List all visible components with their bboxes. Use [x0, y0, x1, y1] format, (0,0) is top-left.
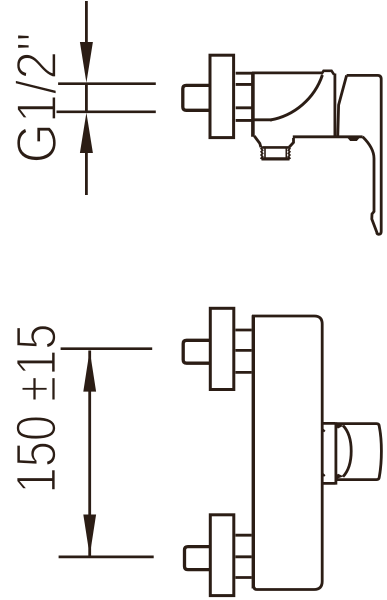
front view: lower inlet pipe stub	[185, 547, 210, 570]
front view: handle corner shade bottom	[337, 474, 344, 479]
front view: handle corner shade top	[337, 423, 344, 428]
front view: extension line lower	[59, 556, 154, 559]
side view: cartridge cap bump	[321, 71, 334, 75]
extension line lower G1/2	[57, 110, 156, 113]
side view: bottom shoulder line to handle	[293, 135, 363, 138]
side view: outlet nipple	[262, 146, 289, 149]
side view: outlet left chamfer	[254, 136, 261, 147]
side view: outlet right chamfer	[289, 138, 293, 147]
extension line upper G1/2	[58, 82, 156, 85]
front view: arrowhead up 150	[83, 350, 96, 391]
front view: upper wall escutcheon	[210, 308, 234, 389]
side view: connection nut rungs	[236, 73, 252, 120]
front view: handle base escutcheon	[323, 422, 336, 484]
front view: arrowhead down 150	[83, 515, 96, 556]
front view: lever handle top/outline	[336, 424, 382, 480]
side view: inlet pipe stub	[183, 85, 210, 110]
svg-text:G1/2": G1/2"	[5, 33, 69, 164]
side view: body top edge	[252, 72, 322, 75]
front view: dimension line 150	[88, 351, 91, 557]
front view: lower wall escutcheon	[210, 515, 234, 596]
front view: handle face arc	[343, 426, 351, 477]
side view: handle skirt front edge	[338, 75, 347, 135]
side view: handle gap shadow	[348, 137, 360, 141]
arrowhead down G1/2	[80, 42, 93, 83]
svg-text:150 ±15: 150 ±15	[5, 324, 69, 494]
arrowhead up G1/2	[80, 113, 93, 153]
front view: extension line upper	[61, 347, 153, 350]
side view: body internal line	[253, 118, 272, 121]
front view: upper inlet pipe stub	[183, 340, 209, 363]
front view: lower nut rungs	[236, 535, 252, 577]
side view: body right edge	[333, 74, 336, 136]
side view: nut right edge / body left edge	[251, 72, 255, 137]
side view: wall escutcheon	[210, 55, 234, 137]
dimension line G1/2 vertical	[85, 1, 88, 42]
front view: body outline	[252, 316, 322, 590]
front view: wall plate tick marks	[323, 430, 325, 477]
side view: outlet thread root lines	[265, 148, 286, 159]
side view: body face arc	[270, 75, 322, 120]
front view: upper nut rungs	[236, 330, 252, 372]
front view: body left edge	[252, 315, 255, 588]
side view: lever handle outline	[347, 75, 382, 234]
